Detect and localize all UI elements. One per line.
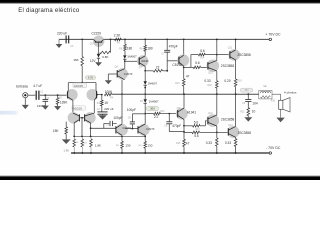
- svg-text:A940: A940: [141, 59, 148, 63]
- svg-text:220 uF: 220 uF: [57, 32, 67, 36]
- svg-text:1.9K: 1.9K: [64, 148, 70, 152]
- capacitor C2 1300P: [37, 94, 50, 108]
- annotation pill 30V: [146, 106, 158, 111]
- svg-text:100pF: 100pF: [113, 116, 122, 120]
- wire rail to 6.8K: [110, 39, 112, 52]
- node rail junction F: [183, 39, 185, 41]
- input jack: [23, 93, 28, 98]
- wire Q4 collector down: [73, 123, 75, 137]
- svg-text:A1941: A1941: [187, 110, 196, 114]
- svg-text:0.33: 0.33: [204, 79, 210, 83]
- transistor Q10 2SC3858: [207, 55, 235, 75]
- resistor R18 0.33: [204, 71, 218, 94]
- svg-text:El diagrama eléctrico: El diagrama eléctrico: [18, 8, 80, 14]
- ground below 15K: [62, 134, 71, 152]
- node -70V terminal: [266, 146, 281, 154]
- capacitor C1 4.7uF: [33, 84, 44, 100]
- svg-text:15K: 15K: [73, 58, 79, 62]
- bottom letterbox bar: [0, 176, 320, 181]
- svg-text:R18: R18: [208, 85, 213, 87]
- transistor Q2 A1015: [87, 89, 98, 100]
- transistor Q12 2SC3858: [207, 94, 235, 127]
- wire Q6 emitter down: [121, 80, 123, 95]
- wire mirror bottom bus: [73, 136, 145, 138]
- resistor R10 130: [139, 136, 153, 153]
- svg-text:1N4007: 1N4007: [148, 82, 158, 86]
- wire bias to A940 base: [125, 60, 139, 62]
- svg-text:2.2K: 2.2K: [114, 33, 121, 37]
- annotation pill 6.3V: [85, 76, 95, 80]
- transistor Q13 2SC3858: [227, 94, 251, 138]
- wire -70V bottom rail: [71, 152, 269, 154]
- svg-text:2.2: 2.2: [154, 115, 159, 119]
- resistor R15 47 upper: [175, 67, 189, 94]
- transistor Q4b C2073: [116, 124, 131, 136]
- svg-text:5.6: 5.6: [194, 120, 199, 124]
- wire fb node down: [121, 94, 123, 124]
- svg-text:5.6: 5.6: [195, 61, 200, 65]
- ground below zener: [95, 62, 102, 66]
- title: [18, 8, 80, 14]
- capacitor C6 100pF: [127, 108, 145, 129]
- label mirror resistor marks: [76, 142, 88, 145]
- ground below C4: [98, 114, 107, 119]
- svg-text:C2073: C2073: [146, 127, 155, 131]
- node mid junction: [144, 85, 146, 95]
- inductor L1 with parallel R: [259, 84, 276, 102]
- resistor R2b 15K mirror: [53, 122, 68, 134]
- svg-text:4 ohmios: 4 ohmios: [284, 91, 297, 95]
- svg-text:5.6: 5.6: [200, 49, 205, 53]
- speaker: [279, 98, 290, 112]
- resistor R21 10: [240, 102, 255, 117]
- resistor 0.33 lower-right: [225, 137, 237, 153]
- svg-text:470pF: 470pF: [169, 45, 178, 49]
- svg-text:R19: R19: [237, 81, 242, 83]
- resistor R8 180: [119, 39, 132, 50]
- svg-text:C5198: C5198: [172, 63, 182, 67]
- node Q8 emitter junction: [183, 66, 194, 68]
- diode D3 1N4007 lower: [140, 94, 159, 103]
- svg-text:Q11: Q11: [228, 47, 233, 50]
- ground at Q6 base: [105, 80, 112, 84]
- diode ZD 12V zener: [90, 53, 100, 63]
- svg-text:Entrada: Entrada: [16, 85, 28, 89]
- wire +70V top rail: [59, 38, 269, 40]
- svg-text:2SC3858: 2SC3858: [237, 53, 251, 57]
- transistor Q7 A940: [137, 51, 149, 69]
- resistor R6 180: [140, 39, 153, 51]
- wire C1 to Q1 base: [40, 94, 68, 96]
- svg-text:6.8K: 6.8K: [102, 55, 108, 59]
- capacitor C3 220uF: [57, 32, 74, 48]
- wire Q4b to Q5b base: [125, 128, 138, 130]
- resistor 22: [145, 65, 167, 72]
- svg-text:130: 130: [125, 143, 130, 147]
- wire 15K to diff pair tee: [81, 66, 83, 83]
- node rail junction B: [110, 39, 112, 41]
- node A940 emitter junction: [144, 66, 146, 71]
- transistor Q8 C5198: [172, 39, 189, 67]
- wire Q9 collector down: [183, 119, 185, 139]
- svg-text:C2073: C2073: [124, 72, 133, 76]
- node Q10 collector junction: [216, 39, 218, 56]
- resistor R5 2.2K: [114, 33, 121, 44]
- wire mirror to Q4b base: [91, 127, 116, 129]
- svg-text:100pF: 100pF: [127, 108, 136, 112]
- wire VAS node down: [144, 103, 146, 114]
- wire bias down to Q6: [124, 61, 126, 68]
- svg-text:47: 47: [186, 141, 190, 145]
- svg-text:Q13: Q13: [228, 124, 233, 127]
- resistor 47 lower: [176, 139, 189, 153]
- svg-text:R15: R15: [176, 143, 181, 145]
- node rail junction C: [124, 39, 126, 41]
- transistor Q11 2SC3858: [228, 39, 251, 61]
- transistor Q3 C2229: [90, 32, 105, 53]
- wire C7 to Q8 base: [167, 60, 179, 62]
- top letterbox bar: [0, 0, 320, 4]
- svg-text:2SC3858: 2SC3858: [238, 131, 252, 135]
- resistor 1.4K: [73, 136, 76, 153]
- svg-text:2SC3858: 2SC3858: [221, 118, 235, 122]
- wire Q5b emitter: [144, 135, 146, 137]
- ground below R1: [54, 106, 61, 110]
- wire L1 to speaker: [272, 94, 281, 100]
- resistor R13 2.2: [145, 111, 178, 119]
- capacitor C5 100pF: [104, 116, 123, 128]
- wire Q1 collector down: [72, 100, 74, 113]
- capacitor C4 220uF: [97, 106, 114, 114]
- resistor 6.8K: [100, 51, 111, 59]
- transistor Q4 A1015: [68, 112, 80, 123]
- resistor 1.8K: [90, 136, 101, 153]
- svg-text:10: 10: [252, 109, 256, 113]
- label 4 ohmios: [284, 91, 297, 95]
- capacitor C9 104: [242, 94, 258, 106]
- wire Q2 collector down: [93, 100, 95, 113]
- resistor R16 5.6: [193, 61, 207, 69]
- svg-text:R21: R21: [240, 112, 245, 114]
- node rail junction A: [81, 39, 83, 41]
- svg-text:Q10: Q10: [208, 72, 213, 75]
- node bias junction: [124, 59, 126, 62]
- ground below Zobel: [244, 117, 252, 121]
- resistor mid: [81, 136, 84, 153]
- wire jack to C1: [28, 94, 35, 96]
- transistor Q9 A1941: [176, 94, 196, 119]
- annotation A1015 lower: [72, 106, 86, 111]
- node output junctions: [183, 93, 249, 95]
- resistor R3 1K: [97, 95, 109, 106]
- svg-text:100K: 100K: [105, 90, 113, 94]
- svg-text:104: 104: [252, 102, 258, 106]
- decor light blue streak: [0, 111, 21, 115]
- svg-text:35V: 35V: [244, 89, 249, 92]
- ground below jack: [22, 98, 29, 109]
- node bottom rail junctions: [73, 152, 236, 154]
- wire Q2 base to fb node: [96, 94, 103, 96]
- svg-text:2SC3858: 2SC3858: [221, 64, 235, 68]
- resistor R9 130: [116, 136, 131, 153]
- resistor R19 0.20: [224, 60, 242, 94]
- svg-text:1N4007: 1N4007: [149, 99, 159, 103]
- wire VAS node to C2073b: [144, 114, 146, 124]
- node rail junction D: [144, 39, 146, 41]
- svg-text:30V: 30V: [150, 107, 155, 111]
- transistor Q6 C2073: [115, 66, 133, 80]
- resistor 0.33 lower-left: [206, 126, 218, 153]
- wire emitter tee: [68, 82, 96, 90]
- diode D1 1N4007: [123, 51, 137, 60]
- transistor Q1 A1015: [66, 89, 77, 100]
- node rail junction E: [166, 39, 168, 41]
- label Entrada: [16, 85, 28, 89]
- annotation pill 35V: [240, 88, 253, 92]
- node +70V terminal: [265, 32, 281, 40]
- svg-text:180: 180: [147, 46, 153, 50]
- resistor R17 5.6 upper: [184, 120, 208, 131]
- svg-text:22: 22: [156, 65, 160, 69]
- resistor R4 100K: [104, 90, 113, 99]
- svg-text:+ 70V DC: + 70V DC: [265, 32, 281, 36]
- svg-text:130: 130: [147, 143, 152, 147]
- capacitor C8 470pF: [164, 114, 184, 132]
- svg-text:A1015: A1015: [74, 84, 83, 88]
- svg-text:C2073: C2073: [122, 126, 131, 130]
- svg-text:1.8K: 1.8K: [95, 143, 101, 147]
- svg-text:5.6: 5.6: [194, 134, 199, 138]
- svg-text:139K: 139K: [60, 101, 68, 105]
- svg-text:12V: 12V: [90, 59, 97, 63]
- svg-text:R13: R13: [160, 111, 165, 113]
- resistor R1 139K: [56, 94, 68, 106]
- resistor 5.6 lower: [184, 131, 228, 138]
- capacitor C7 470pF: [162, 39, 178, 71]
- svg-text:47: 47: [186, 75, 190, 79]
- svg-text:R20: R20: [271, 100, 276, 102]
- svg-text:R15: R15: [175, 83, 180, 85]
- svg-text:A1015: A1015: [73, 106, 82, 110]
- svg-text:0.33: 0.33: [206, 141, 212, 145]
- svg-text:0.20: 0.20: [224, 79, 230, 83]
- svg-text:R14: R14: [200, 58, 205, 60]
- node C8 junction: [168, 113, 170, 115]
- svg-text:L1: L1: [264, 84, 267, 88]
- svg-text:15K: 15K: [53, 129, 60, 133]
- transistor Q5 A1015: [84, 112, 95, 123]
- resistor R14 5.6: [191, 49, 217, 68]
- ground below C2: [42, 106, 49, 110]
- transistor Q5b C2073: [138, 124, 155, 136]
- svg-text:4.7 uF: 4.7 uF: [33, 84, 42, 88]
- svg-text:0.33: 0.33: [225, 141, 231, 145]
- wire Q11 base: [217, 54, 230, 56]
- svg-text:220 uF: 220 uF: [104, 107, 114, 111]
- ground below speaker: [276, 109, 284, 122]
- ground below C3: [56, 39, 63, 48]
- wire Q6 base elbow: [108, 74, 117, 80]
- resistor R2 15K tail: [73, 39, 83, 65]
- svg-text:Q12: Q12: [208, 112, 213, 115]
- wire Q5 collector down: [90, 123, 92, 137]
- annotation A1015 upper: [73, 83, 87, 88]
- svg-text:470pF: 470pF: [172, 124, 181, 128]
- svg-text:C2229: C2229: [92, 32, 102, 36]
- svg-text:6.3V: 6.3V: [88, 76, 94, 80]
- wire mirror bases join: [79, 117, 84, 136]
- svg-text:180: 180: [127, 46, 133, 50]
- svg-text:1N4007: 1N4007: [127, 55, 137, 59]
- svg-text:- 70V DC: - 70V DC: [266, 146, 281, 150]
- wire output node: [112, 93, 259, 95]
- diode D2 1N4007 upper: [144, 71, 158, 86]
